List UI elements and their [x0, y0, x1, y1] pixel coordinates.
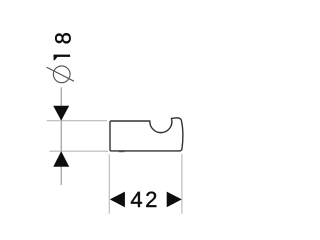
- arrow left: [110, 192, 125, 208]
- arrow up: [53, 151, 69, 167]
- bottom extension line: [50, 150, 109, 152]
- arrow right: [167, 192, 182, 208]
- vertical dimension line: [60, 87, 62, 185]
- dimension text 42 digit 4: [131, 192, 142, 207]
- arrow down: [53, 106, 69, 121]
- left extension line (42 dim): [108, 154, 110, 214]
- dimension text 42 digit 2: [146, 192, 156, 207]
- diameter symbol slash: [47, 67, 74, 81]
- right extension line (42 dim): [181, 154, 183, 214]
- dimension text ⌀18 digit 8 (rotated): [55, 33, 71, 43]
- top extension line: [47, 120, 107, 122]
- diameter symbol circle: [53, 66, 70, 83]
- dimension text ⌀18 digit 1 (rotated, custom glyph without foot): [54, 55, 71, 61]
- bottom edge detail seam: [119, 151, 125, 153]
- hook outline: [110, 118, 183, 151]
